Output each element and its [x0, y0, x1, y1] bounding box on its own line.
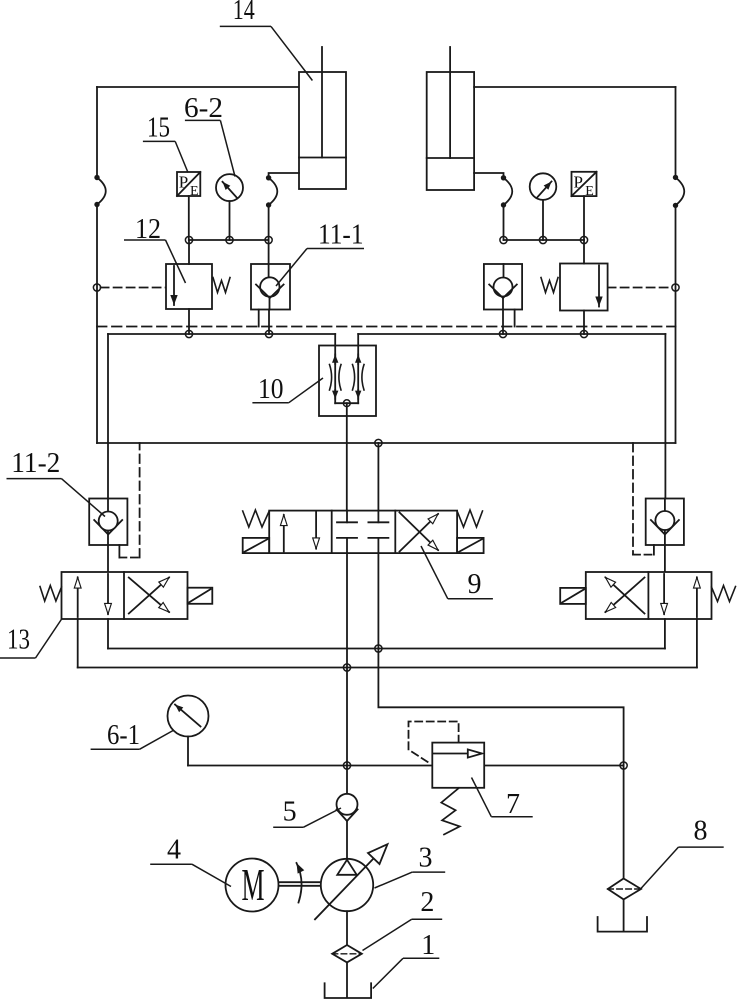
pilot line: relief valve 7 (dashed loop)	[409, 722, 459, 765]
label 11-1	[276, 220, 364, 287]
check valve 11-1 right	[484, 264, 522, 310]
wire: check 11-1 pilot stub	[258, 310, 260, 327]
wire: drop from junction down to filter 8	[623, 766, 625, 879]
svg-text:7: 7	[506, 789, 520, 820]
wire: filter 2 to tank 1	[346, 962, 348, 997]
label 14	[220, 0, 313, 81]
check valve 11-2 mirror (right)	[646, 499, 684, 546]
node: right check valve junction	[500, 236, 507, 243]
wire: divider outlet down to valve 9	[346, 403, 348, 510]
label 7	[472, 778, 533, 821]
svg-text:M: M	[242, 859, 265, 910]
node: manifold top edge junctions	[185, 330, 192, 337]
wire: right manifold horizontal line	[504, 239, 585, 241]
pressure sensor 15 (P/E box)	[177, 172, 200, 199]
wire: check 11-2 pilot (dashed)	[119, 443, 139, 558]
spring: relief valve 7	[441, 788, 460, 835]
label 8	[641, 816, 724, 890]
svg-text:3: 3	[419, 843, 433, 874]
wire: tank drop from line A to filter 8 branch	[378, 649, 623, 766]
svg-text:6-1: 6-1	[107, 720, 140, 751]
filter 2	[332, 945, 362, 962]
hose: left outer flexible hose	[97, 178, 106, 205]
wire: filter 8 to tank	[623, 899, 625, 930]
flow divider 10	[319, 334, 376, 416]
wire: right gauge drop	[542, 200, 544, 240]
label 6-2	[184, 93, 235, 177]
wire: valve 13 mirror tank port down to line A	[664, 619, 666, 649]
node: P/E drop junction	[185, 236, 192, 243]
gauge 6-2 left	[216, 174, 243, 201]
solenoid: valve 9 left	[243, 538, 270, 553]
wire: valve 12-mirror top port	[583, 240, 585, 264]
label 10	[252, 374, 323, 405]
label 9	[421, 546, 493, 600]
node: gauge drop junction	[226, 236, 233, 243]
hose: right inner flexible hose	[504, 178, 513, 205]
node: right gauge drop junction	[539, 236, 546, 243]
tank 1	[325, 983, 372, 998]
svg-text:P: P	[179, 173, 188, 192]
node: check valve 11-1 junction	[265, 236, 272, 243]
label 13	[0, 619, 62, 659]
wire: relief output line to filter 8 drop	[484, 765, 623, 767]
label 11-2	[7, 448, 106, 517]
cylinder 14 (right)	[427, 47, 474, 190]
label 2	[363, 887, 443, 951]
svg-text:8: 8	[694, 816, 708, 847]
relief valve 7	[432, 743, 484, 788]
wire: gauge 6-2 drop	[229, 201, 231, 240]
node: manifold bottom edge junction to tank line	[375, 439, 382, 446]
label 12	[124, 214, 186, 283]
cylinder 14 (left)	[299, 47, 346, 189]
check valve 11-1 (left)	[251, 264, 290, 310]
svg-text:9: 9	[468, 569, 482, 600]
label 4	[150, 835, 231, 887]
wire: left manifold horizontal line	[189, 239, 269, 241]
wire: right cylinder bottom port to hose	[474, 173, 503, 178]
gauge 6-2 right	[530, 173, 557, 200]
wire: sensor 15 drop	[188, 196, 190, 240]
svg-text:15: 15	[147, 113, 170, 144]
wire: valve 9 P port down to pump line	[346, 553, 348, 765]
node: pump line junction on relief line	[343, 762, 350, 769]
wire: left cylinder bottom port to hose	[269, 173, 299, 178]
wire: check mirror to valve 13 mirror	[664, 545, 666, 572]
wire: right main vertical lower segment	[675, 205, 677, 443]
node: pilot tee on right main line	[672, 284, 679, 291]
svg-text:E: E	[190, 184, 199, 199]
label 3	[375, 843, 446, 889]
svg-text:14: 14	[233, 0, 255, 26]
wire: dashed pilot line to valve 12	[101, 287, 166, 289]
svg-text:10: 10	[258, 374, 284, 405]
valve 12 (counterbalance, left)	[166, 264, 230, 309]
wire: relief input line from gauge to relief valve 7	[188, 765, 432, 767]
check valve 11-2 (left, pilot operated)	[89, 499, 127, 546]
valve 13 mirror (right 4/2 solenoid)	[586, 572, 712, 619]
node: line B junction with pump line	[343, 664, 350, 671]
solenoid: valve 13 mirror left side	[560, 588, 586, 604]
svg-text:P: P	[574, 173, 583, 192]
wire: valve 12-mirror bottom port	[583, 311, 585, 335]
hose: right outer flexible hose	[676, 177, 685, 205]
valve 12 mirror (counterbalance, right)	[541, 264, 608, 311]
tank under filter 8	[598, 917, 647, 932]
wire: top-right line from right cylinder to right main line	[474, 86, 675, 88]
wire: gauge 6-1 drop	[187, 737, 189, 766]
solenoid: valve 13 right side	[188, 588, 213, 604]
shaft: motor to pump	[280, 882, 321, 886]
wire: hose down to left manifold line	[268, 205, 270, 240]
svg-text:5: 5	[283, 797, 297, 828]
wire: dashed pilot line from valve 12-mirror	[608, 287, 672, 289]
wire: pump outlet up (to check 5) none, inlet below	[346, 911, 348, 945]
wire: tank line from manifold bottom to valve 9	[377, 443, 379, 511]
node: pilot tee on left main line	[93, 284, 100, 291]
svg-text:4: 4	[167, 835, 181, 866]
wire: check 11-1 bottom port	[268, 310, 270, 335]
spring: valve 9 right	[457, 510, 482, 527]
manifold block rectangle	[97, 334, 676, 443]
wire: manifold left edge down to check 11-2	[107, 443, 109, 499]
directional valve 9 (4/3 solenoid)	[269, 511, 457, 553]
svg-text:E: E	[585, 184, 594, 199]
label 15	[143, 113, 188, 173]
pressure sensor 15 right (P/E box)	[572, 172, 597, 199]
node: junction of relief output and filter 8 drop	[620, 762, 627, 769]
node: line A junction with tank drop	[375, 645, 382, 652]
hose: left inner flexible hose	[269, 178, 278, 205]
wire: valve 13 tank port down to line A	[107, 619, 109, 649]
spring: valve 13 mirror right	[712, 586, 736, 602]
label 5	[273, 797, 341, 828]
svg-text:11-1: 11-1	[318, 220, 364, 251]
motor 4 (M circle)	[226, 859, 279, 912]
wire: right check 11-1 pilot stub	[514, 310, 516, 327]
valve 13 (left 4/2 solenoid)	[62, 572, 188, 619]
wire: check mirror pilot (dashed)	[633, 443, 654, 555]
wire: manifold right edge down to check 11-2 mirror	[664, 443, 666, 499]
svg-text:1: 1	[421, 930, 435, 961]
svg-text:13: 13	[7, 625, 30, 656]
spring: valve 9 left	[243, 510, 270, 527]
wire: left main vertical upper segment	[96, 87, 98, 178]
svg-text:2: 2	[420, 887, 434, 918]
wire: check 11-2 to valve 13	[107, 545, 109, 572]
solenoid: valve 9 right	[457, 538, 484, 553]
wire: long dashed pilot rail	[97, 326, 676, 328]
svg-text:6-2: 6-2	[184, 93, 223, 124]
check valve 5	[337, 766, 358, 859]
wire: valve 13 mirror pressure port down to line B	[696, 619, 698, 668]
node: right P/E drop junction	[580, 236, 587, 243]
rotation arrow on shaft	[297, 863, 302, 903]
wire: top-left line from left main line to cylinder 14	[97, 86, 299, 88]
label 1	[373, 930, 440, 989]
wire: left main vertical lower segment to manifold bottom line	[96, 205, 98, 444]
filter 8	[608, 879, 641, 900]
wire: line A (return rail)	[108, 648, 665, 650]
spring: valve 13 left	[40, 586, 62, 602]
pump 3 (variable displacement)	[315, 844, 388, 919]
wire: valve 13 pressure port down to line B	[77, 619, 79, 668]
wire: valve 12 top port	[188, 240, 190, 264]
svg-text:11-2: 11-2	[11, 448, 60, 479]
node: flow divider combined outlet	[343, 400, 350, 407]
wire: valve 9 T port down to line A	[377, 553, 379, 648]
wire: line B (pressure rail)	[78, 667, 697, 669]
wire: hose down to right manifold line	[503, 205, 505, 240]
wire: right sensor drop	[583, 196, 585, 240]
wire: right main vertical upper segment	[675, 87, 677, 177]
wire: right check 11-1 bottom port	[502, 310, 504, 335]
wire: check 11-1 top port	[268, 240, 270, 264]
label 6-1	[91, 720, 174, 751]
gauge 6-1	[168, 696, 209, 737]
wire: valve 12 bottom port	[188, 309, 190, 334]
